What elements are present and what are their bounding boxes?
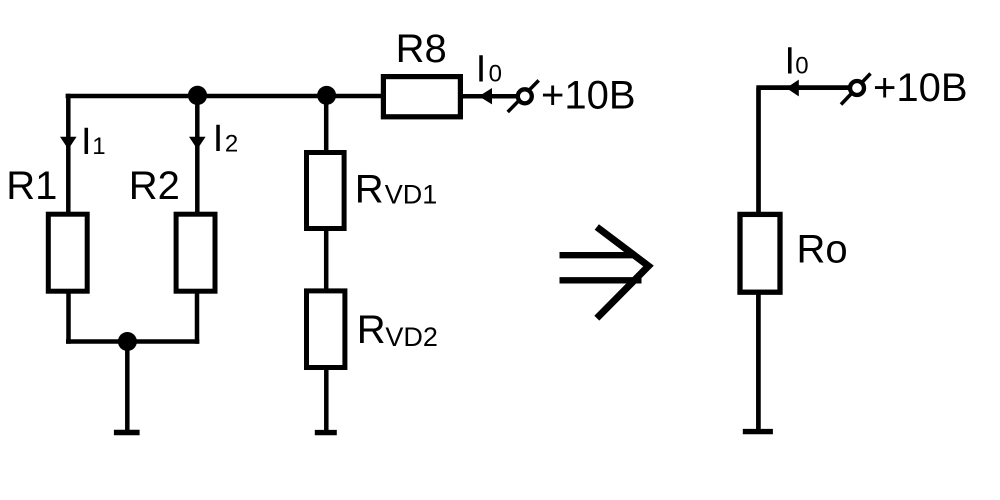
node: junction of divider branch with top bus — [317, 86, 336, 105]
wire: RVD2 bottom lead — [324, 368, 329, 430]
wire: R2 branch vertical — [195, 96, 200, 215]
resistor R1 — [48, 214, 87, 291]
wire: between RVD1 and RVD2 — [324, 229, 329, 291]
label RVD1 — [355, 167, 437, 211]
node: junction of R2 with top bus — [188, 86, 207, 105]
symbol: equivalence double arrow — [560, 227, 649, 318]
terminal: +10V supply (left circuit) — [508, 80, 539, 112]
arrow: current I2 direction — [189, 137, 206, 150]
resistor Ro — [740, 214, 780, 292]
svg-text:R: R — [355, 167, 384, 211]
ground: right circuit — [743, 429, 773, 434]
arrow: current I0 direction (left circuit) — [479, 88, 492, 104]
svg-text:2: 2 — [225, 130, 238, 157]
svg-text:VD1: VD1 — [385, 180, 438, 210]
svg-text:Ro: Ro — [797, 228, 848, 272]
node: bottom junction to ground — [118, 332, 137, 351]
svg-text:+10В: +10В — [541, 74, 636, 118]
ground: left circuit common — [114, 430, 140, 435]
wire: R1 bottom lead — [66, 290, 71, 344]
svg-text:1: 1 — [92, 133, 105, 160]
svg-text:I: I — [213, 118, 224, 160]
wire: right circuit top corner — [756, 88, 848, 212]
svg-text:+10В: +10В — [873, 66, 968, 110]
arrow: current I0 direction (right circuit) — [786, 80, 799, 97]
wire: bottom bus joining R1 and R2 — [66, 339, 199, 344]
wire: R8 to supply terminal — [461, 94, 516, 99]
wire: R2 bottom lead — [195, 290, 200, 344]
wire: top bus from R1 corner to R8 — [66, 94, 381, 99]
wire: Ro bottom lead — [756, 292, 761, 430]
svg-text:VD2: VD2 — [385, 322, 438, 352]
label I2 — [213, 118, 239, 160]
terminal: +10V supply (right circuit) — [841, 74, 871, 105]
svg-text:I: I — [476, 49, 487, 91]
svg-text:0: 0 — [795, 53, 808, 80]
svg-text:0: 0 — [489, 61, 502, 88]
svg-text:R2: R2 — [129, 164, 180, 208]
svg-text:R8: R8 — [396, 27, 447, 71]
svg-text:I: I — [81, 121, 92, 163]
resistor R8 — [383, 77, 460, 117]
label RVD2 — [357, 308, 438, 352]
wire: R1 branch vertical — [66, 94, 71, 214]
svg-text:R: R — [357, 308, 386, 352]
resistor R2 — [176, 214, 215, 291]
label I0 (right circuit) — [785, 41, 809, 83]
wire: bottom junction to ground — [125, 342, 130, 431]
ground: divider branch — [315, 430, 337, 435]
wire: divider branch top lead — [324, 96, 329, 154]
svg-text:I: I — [785, 41, 796, 83]
label I0 (left circuit) — [476, 49, 502, 91]
label I1 — [81, 121, 106, 163]
arrow: current I1 direction — [60, 137, 77, 150]
resistor RVD2 — [307, 291, 345, 368]
resistor RVD1 — [307, 153, 345, 229]
svg-text:R1: R1 — [6, 164, 57, 208]
